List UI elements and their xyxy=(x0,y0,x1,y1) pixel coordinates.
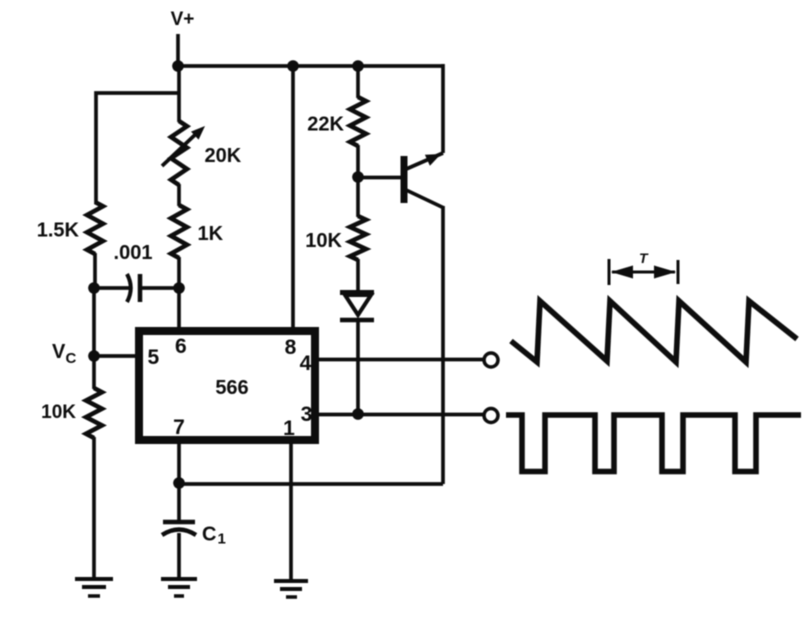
svg-text:1.5K: 1.5K xyxy=(37,220,80,242)
svg-text:6: 6 xyxy=(175,335,187,358)
base bar xyxy=(401,156,408,203)
resistor 10K (left) xyxy=(86,388,102,438)
wire: 1K bottom lead xyxy=(177,257,181,289)
IC U1 566 xyxy=(139,331,315,440)
svg-text:C: C xyxy=(66,350,77,367)
wire: 1.5K bottom lead xyxy=(93,253,97,289)
wire: pin 8 lead from rail xyxy=(291,66,295,330)
node: rail junction at 20K column xyxy=(172,60,184,72)
transistor Q1 xyxy=(358,153,444,208)
ground (C1) xyxy=(161,579,197,596)
wire: 22K bottom lead xyxy=(356,145,360,178)
svg-text:20K: 20K xyxy=(205,145,242,167)
ground (left) xyxy=(75,579,113,596)
base wire xyxy=(358,176,402,180)
svg-text:10K: 10K xyxy=(305,230,342,252)
wire: branch from 20K column to 1.5K resistor xyxy=(96,93,178,204)
waveform: pulse train xyxy=(506,415,801,472)
svg-text:4: 4 xyxy=(300,352,312,375)
node: rail junction at 22K column xyxy=(352,60,364,72)
svg-text:8: 8 xyxy=(285,336,297,359)
wire: rail corner down to transistor upper lead xyxy=(441,64,445,153)
terminal: sawtooth output xyxy=(484,353,498,367)
potentiometer 20K arrow xyxy=(162,132,198,166)
node: .001 cap left junction xyxy=(88,282,100,294)
node: rail junction at pin 8 column xyxy=(287,60,299,72)
wire: pin 1 lead to ground xyxy=(289,442,293,580)
svg-text:T: T xyxy=(639,250,649,266)
svg-text:V: V xyxy=(52,341,66,363)
svg-text:.001: .001 xyxy=(114,242,153,264)
wire: V+ lead down to rail xyxy=(176,34,180,67)
svg-text:V+: V+ xyxy=(171,9,195,30)
svg-text:5: 5 xyxy=(148,346,160,369)
wire: transistor lower lead vertical return xyxy=(441,206,445,484)
node: transistor base junction xyxy=(352,171,364,183)
node VC xyxy=(88,350,100,362)
capacitor .001 xyxy=(94,274,179,302)
svg-text:C: C xyxy=(202,524,216,546)
emitter arrowhead xyxy=(425,154,441,166)
wire: pin 7 lead xyxy=(177,442,181,484)
svg-text:22K: 22K xyxy=(307,114,344,136)
wire: 20K to 1K link xyxy=(177,184,181,206)
ground (pin 1) xyxy=(274,581,308,597)
wire: C1 top lead xyxy=(177,483,181,522)
wire: top supply rail xyxy=(178,64,443,68)
wire: VC node down to 10K xyxy=(92,356,96,389)
lower lead xyxy=(404,189,444,208)
capacitor C1 xyxy=(162,522,196,535)
wire: left column down to VC node xyxy=(92,288,96,357)
upper lead xyxy=(404,153,443,170)
waveform: sawtooth xyxy=(511,301,797,362)
wire: pin 4 output line xyxy=(315,358,484,362)
potentiometer 20K xyxy=(171,121,187,185)
svg-text:1: 1 xyxy=(283,417,295,440)
svg-text:566: 566 xyxy=(215,377,248,399)
wire: 10K bottom lead to diode xyxy=(356,259,360,293)
wire: pin 7 junction to transistor return xyxy=(179,482,443,486)
wire: 10K bottom lead to ground xyxy=(92,437,96,578)
diode D1 xyxy=(340,293,374,321)
svg-text:1: 1 xyxy=(218,531,226,548)
wire: pin 6 lead xyxy=(177,288,181,330)
resistor 22K xyxy=(350,97,366,146)
node: .001 cap right junction xyxy=(173,282,185,294)
wire: 10K (right) top lead xyxy=(356,177,360,217)
wire: VC node to pin 5 xyxy=(94,354,136,358)
node: diode to pin 3 junction xyxy=(352,408,364,420)
resistor 10K (right) xyxy=(350,216,366,260)
svg-text:7: 7 xyxy=(173,416,185,439)
terminal: pulse output xyxy=(484,409,498,423)
wire: pin 3 output line xyxy=(315,413,484,417)
svg-text:3: 3 xyxy=(301,403,313,426)
wire: diode cathode lead down to pin 3 line xyxy=(356,320,360,415)
potentiometer 20K top lead xyxy=(177,66,181,122)
wire: 22K top lead xyxy=(356,66,360,98)
period marker T xyxy=(609,259,678,285)
resistor 1.5K xyxy=(87,202,103,254)
node: pin 7 junction xyxy=(173,477,185,489)
svg-text:10K: 10K xyxy=(41,402,76,423)
wire: C1 bottom lead xyxy=(177,533,181,578)
resistor 1K xyxy=(171,205,187,258)
svg-text:1K: 1K xyxy=(198,223,224,245)
